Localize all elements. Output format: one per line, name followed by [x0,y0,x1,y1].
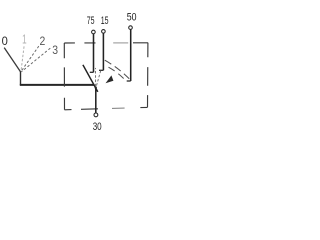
terminal 15 contact foot [99,69,103,71]
terminal 15 circle [102,30,106,34]
terminal 50 contact foot [127,80,131,82]
dashed enclosure box: bottom border light dash [112,107,125,109]
lever line to position 0 (solid, current position) [4,48,20,72]
svg-text:15: 15 [101,15,109,27]
movable contact arm (solid, position 0) [83,65,98,92]
mechanical linkage wire (horizontal) [20,84,95,86]
lever line to position 2 (dashed) [21,46,38,71]
terminal 15 wire [102,33,104,70]
dashed arm position 2 [97,71,101,85]
terminal 50 circle [129,26,133,30]
contact arm pivot [95,86,97,88]
dashed enclosure box: bottom border [65,107,148,109]
terminal 30 circle [94,113,98,117]
rotation sweep arc inner (dashed) [109,67,126,80]
dashed enclosure box: right border [147,43,149,108]
dashed arm position 1 [95,68,97,86]
terminal 75 wire [93,34,95,72]
rotation direction arrowhead [106,75,114,83]
svg-text:75: 75 [87,15,95,27]
lever pivot vertical wire [20,72,22,85]
dashed enclosure box: left border [63,43,65,110]
svg-text:0: 0 [2,34,8,48]
terminal 50 wire [130,30,132,82]
svg-text:1: 1 [22,31,27,46]
lever line to position 3 (dashed) [22,48,50,71]
terminal 30 wire [95,88,97,113]
rotation sweep arc outer (dashed) [105,60,129,79]
svg-text:50: 50 [127,11,137,23]
svg-text:30: 30 [93,121,102,133]
svg-text:3: 3 [52,43,58,57]
lever line to position 1 (dashed light) [21,47,24,71]
dashed enclosure box: top border light dash [113,42,128,44]
terminal 75 circle [92,30,96,34]
svg-text:2: 2 [40,34,46,48]
terminal 75 contact foot [90,71,94,73]
dashed enclosure box: top border [64,42,148,44]
